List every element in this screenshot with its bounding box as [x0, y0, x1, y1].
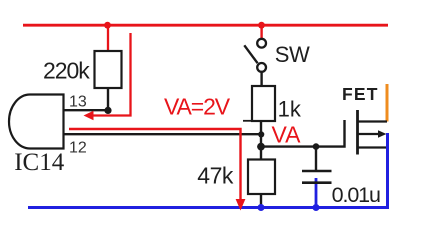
wire 220k bottom to pin13 node: [107, 88, 109, 111]
resistor R 220k: [95, 51, 122, 88]
switch SW bottom contact: [257, 63, 266, 72]
wire cap bottom lead (blue): [315, 178, 318, 208]
resistor R 1k: [252, 86, 275, 121]
wire 47k bottom to ground rail: [260, 194, 262, 208]
FET body stub with arrow: [358, 133, 380, 135]
wire cap top lead: [315, 147, 317, 171]
svg-text:0.01u: 0.01u: [332, 183, 380, 207]
stray tick at 1k bottom-left: [243, 120, 252, 122]
wire pin 12 input: [64, 133, 262, 135]
wire pin 13 input: [64, 109, 109, 111]
FET drain stub: [358, 120, 388, 122]
resistor R 47k: [248, 160, 275, 195]
wire VA node to FET gate: [261, 120, 345, 147]
wire SW top lead from rail: [260, 25, 262, 39]
capacitor C 0.01u bottom plate: [302, 181, 332, 184]
node junction on rail above SW: [258, 22, 265, 29]
svg-text:1k: 1k: [278, 97, 302, 122]
svg-text:VA=2V: VA=2V: [164, 94, 231, 120]
svg-text:13: 13: [69, 94, 87, 111]
node junction on rail above 220k: [104, 22, 111, 29]
capacitor C 0.01u top plate: [302, 170, 332, 173]
switch SW top contact: [257, 39, 266, 48]
svg-text:47k: 47k: [197, 163, 234, 189]
switch SW lever: [244, 45, 257, 63]
svg-text:220k: 220k: [43, 58, 90, 84]
FET source stub: [358, 146, 389, 148]
node VA lower junction: [257, 143, 265, 151]
svg-text:FET: FET: [342, 84, 379, 104]
svg-text:IC14: IC14: [14, 149, 64, 176]
wire SW bottom to 1k: [260, 72, 262, 86]
node ground junction below 47k: [258, 204, 265, 211]
wire ground rail (blue bottom rail): [28, 206, 389, 209]
svg-text:12: 12: [69, 140, 87, 157]
wire red lead from rail to 220k top: [107, 25, 109, 52]
transistor FET channel bar: [356, 110, 359, 155]
gate IC14 (mirrored AND gate body): [9, 95, 64, 149]
wire VCC rail (red top rail): [23, 24, 388, 27]
blue source wire down: [386, 133, 389, 208]
svg-text:VA: VA: [272, 122, 302, 148]
orange drain wire: [386, 84, 389, 122]
node ground junction below cap: [313, 204, 320, 211]
wire VA node to 47k top: [260, 147, 262, 160]
red annotation arrow into pin 13: [93, 33, 131, 116]
wire 1k bottom to VA node: [260, 121, 262, 148]
svg-text:SW: SW: [275, 42, 310, 67]
node pin13 junction: [104, 107, 111, 114]
node capacitor junction: [313, 143, 320, 150]
node VA upper junction: [258, 131, 264, 137]
red annotation line from gate output down to ground: [69, 129, 241, 200]
